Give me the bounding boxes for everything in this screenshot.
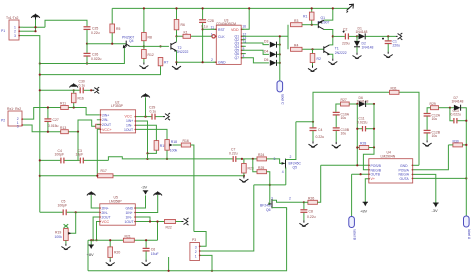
resistor R16 vert: [71, 90, 83, 107]
svg-text:4: 4: [243, 54, 245, 58]
wire vertA: [356, 104, 358, 165]
resistor R11: [60, 102, 68, 110]
svg-text:2: 2: [290, 155, 292, 159]
svg-text:-3V: -3V: [432, 208, 439, 213]
ground under C10B: [332, 142, 341, 148]
op-amp U2 LF353P: [100, 100, 135, 133]
resistor R30: [448, 139, 466, 147]
capacitor C8 0.22u: [300, 202, 315, 220]
svg-text:0.22u: 0.22u: [316, 135, 325, 139]
svg-text:Q5: Q5: [293, 166, 298, 170]
wire C4/C3 row: [40, 159, 61, 161]
ground under R20: [106, 260, 115, 266]
svg-text:1OUT: 1OUT: [124, 128, 133, 132]
svg-text:2OUT: 2OUT: [102, 215, 111, 219]
wire feedback riser: [157, 222, 159, 241]
ground under C12B: [423, 140, 432, 146]
wire rail drop left: [87, 240, 89, 271]
wire P1 pin1 row: [23, 26, 45, 28]
svg-text:220u: 220u: [342, 42, 350, 46]
svg-text:R21: R21: [125, 234, 131, 238]
svg-text:R8: R8: [148, 36, 152, 40]
resistor R27: [336, 98, 359, 112]
svg-text:C27: C27: [53, 118, 59, 122]
svg-text:GND: GND: [126, 206, 134, 210]
wire Q6 stub: [241, 53, 246, 55]
node Q4 collector: [143, 45, 145, 47]
wire P2 upper pin: [22, 108, 100, 120]
svg-text:Tx1·Tx2: Tx1·Tx2: [6, 16, 19, 20]
wire OUTB: [352, 173, 369, 175]
wire stub vert: [168, 257, 170, 271]
svg-text:10u: 10u: [432, 117, 438, 121]
svg-text:2N2222: 2N2222: [177, 50, 189, 54]
node C1 top: [387, 35, 389, 37]
svg-text:K1: K1: [184, 30, 188, 34]
svg-text:100pF: 100pF: [58, 204, 68, 208]
capacitor C29: [149, 105, 163, 119]
svg-text:R16: R16: [78, 97, 84, 101]
svg-text:LF353P: LF353P: [111, 104, 124, 108]
wire riser to top row: [313, 92, 419, 165]
svg-text:0.1u: 0.1u: [150, 109, 157, 113]
resistor R29: [427, 102, 454, 113]
svg-text:R4: R4: [294, 44, 298, 48]
net flag label A: [464, 216, 472, 240]
svg-text:0.1u: 0.1u: [201, 24, 208, 28]
resistor R24: [257, 153, 285, 163]
resistor R25: [253, 159, 270, 204]
svg-text:C26: C26: [92, 53, 98, 57]
wire gnd row to U3: [177, 61, 217, 63]
svg-text:P1: P1: [1, 29, 5, 33]
resistor R7: [158, 58, 168, 66]
svg-text:Q7: Q7: [235, 56, 240, 60]
diode D2 1N4148: [354, 36, 373, 52]
node junction pin2: [34, 30, 36, 32]
node C28 gnd row: [202, 61, 204, 63]
ground under C8: [299, 220, 308, 226]
capacitor C12A: [424, 113, 441, 129]
svg-text:0.22u: 0.22u: [229, 152, 238, 156]
svg-text:3: 3: [195, 245, 197, 249]
svg-text:2IN-: 2IN-: [102, 211, 108, 215]
capacitor C7 0.22u: [229, 147, 257, 162]
wire VCC drop: [97, 222, 100, 241]
svg-text:Q4: Q4: [129, 39, 134, 43]
node base row left: [86, 43, 88, 45]
wire Q4 stub: [241, 45, 246, 47]
wire R3/R4 riser: [287, 25, 289, 50]
wire C26 bottom: [86, 57, 88, 64]
resistor R15: [148, 141, 167, 154]
svg-text:0.1u: 0.1u: [79, 83, 86, 87]
op-amp U5 LM358P: [100, 195, 136, 225]
resistor R12: [142, 46, 154, 62]
U4 pin pads: [368, 165, 413, 180]
svg-text:0.022u: 0.022u: [451, 113, 461, 117]
wire riser to C25: [45, 20, 87, 27]
node backbone row74: [39, 74, 41, 76]
wire signal row to C7: [148, 158, 233, 160]
wire 1IN- drop: [136, 125, 157, 140]
node T2 collector: [175, 35, 177, 37]
svg-text:2: 2: [211, 58, 213, 62]
svg-text:GND: GND: [218, 61, 226, 65]
wire row y74.6: [40, 66, 161, 75]
wire R4 row: [302, 48, 324, 50]
svg-text:0.22u: 0.22u: [307, 215, 316, 219]
resistor R1: [303, 8, 314, 24]
svg-text:R17: R17: [101, 169, 107, 173]
capacitor C4b 0.22u: [310, 122, 325, 142]
svg-text:GND: GND: [400, 164, 408, 168]
svg-text:R11: R11: [60, 102, 66, 106]
U3 pin stubs: [213, 29, 244, 62]
wire VDD riser: [241, 8, 249, 29]
ground under C4b: [309, 141, 318, 147]
wire Q7 to D5: [241, 58, 269, 63]
svg-text:R1: R1: [303, 14, 307, 18]
wire OUTA: [413, 177, 467, 179]
svg-text:R13: R13: [60, 126, 66, 130]
svg-text:R16: R16: [183, 139, 189, 143]
svg-text:100pF: 100pF: [55, 153, 65, 157]
diode D6 1N4148: [357, 96, 375, 107]
svg-text:-3V: -3V: [141, 185, 148, 190]
output port arrow right of C29: [163, 113, 170, 120]
resistor R31: [390, 86, 400, 94]
power +V above C29: [141, 93, 150, 117]
node C2 branch: [332, 35, 334, 37]
wire C30 row: [40, 89, 80, 91]
svg-text:Q6: Q6: [266, 208, 271, 212]
op-amp U3 CD4040BCM: [211, 18, 247, 64]
node RST branch: [202, 28, 204, 30]
node D2 branch: [356, 35, 358, 37]
JFET Q5 BF245C: [274, 122, 302, 185]
capacitor C6 15uF: [143, 240, 159, 259]
wire P3 pin1 loop: [194, 232, 206, 247]
wire U2 VCC right: [136, 116, 152, 118]
wire Q1 output row: [241, 35, 288, 37]
wire Q2 stub: [241, 39, 246, 41]
node R2 top: [311, 48, 313, 50]
resistor R21: [123, 234, 134, 242]
svg-text:R20: R20: [114, 250, 120, 254]
wire POS/B row: [321, 164, 369, 166]
svg-text:R2: R2: [317, 57, 321, 61]
svg-text:LM2904N: LM2904N: [381, 155, 396, 159]
wire 1IN+ drop: [136, 121, 148, 153]
svg-text:Rx1· Rx2: Rx1· Rx2: [7, 107, 21, 111]
node VDD rail: [248, 7, 250, 9]
capacitor C26: [84, 53, 102, 62]
ground under C6: [142, 260, 151, 266]
wire jog up to signal row: [108, 157, 147, 161]
capacitor C30: [79, 79, 93, 93]
node junction pin1: [34, 26, 36, 28]
supply -3V: [432, 203, 439, 213]
svg-text:R12: R12: [148, 53, 154, 57]
capacitor C13 0.022u: [451, 109, 467, 124]
node T2 emitter: [175, 61, 177, 63]
resistor R22: [165, 220, 182, 230]
diode D3: [264, 40, 280, 48]
svg-text:P3: P3: [192, 238, 196, 242]
connector P2: [1, 107, 22, 129]
wire 1OUT drop: [136, 129, 167, 139]
node R6 top rail: [175, 7, 177, 9]
svg-text:10u: 10u: [341, 116, 347, 120]
wire backbone to C5: [40, 211, 63, 213]
svg-text:C25: C25: [92, 26, 98, 30]
wire P3 pin3 drop: [200, 255, 213, 270]
svg-text:2N2222: 2N2222: [335, 51, 347, 55]
svg-text:CD4040BCM: CD4040BCM: [216, 22, 236, 26]
svg-text:RST: RST: [218, 28, 225, 32]
wire drain node row: [296, 121, 313, 123]
svg-text:100k: 100k: [170, 148, 178, 152]
svg-text:10u: 10u: [341, 132, 347, 136]
wire diode cathode bus: [279, 36, 281, 81]
ground arrow above R16: [69, 83, 78, 87]
capacitor C27: [44, 108, 58, 132]
svg-text:R6: R6: [181, 23, 185, 27]
power +V above U5: [87, 191, 100, 208]
CLK bubble: [212, 35, 215, 38]
resistor R28: [357, 142, 374, 150]
svg-text:1N4148: 1N4148: [362, 45, 374, 49]
svg-text:LM358P: LM358P: [109, 199, 122, 203]
svg-text:label C: label C: [281, 94, 285, 105]
wire 1OUT row: [135, 221, 164, 223]
power arrow above 1IN+: [135, 191, 162, 213]
wire to C2: [333, 35, 345, 37]
svg-text:3: 3: [17, 125, 19, 129]
svg-text:CLK: CLK: [218, 35, 225, 39]
svg-text:220u: 220u: [393, 44, 401, 48]
wire C25 to base row: [86, 30, 88, 44]
svg-text:POS/B: POS/B: [371, 164, 382, 168]
U5 pin pads: [99, 207, 136, 222]
ground under D2: [353, 53, 362, 59]
wire R17 row: [40, 175, 244, 177]
resistor R2: [310, 49, 321, 65]
resistor R23: [242, 159, 254, 176]
svg-text:2OUT: 2OUT: [102, 123, 111, 127]
ground under T2: [172, 63, 181, 70]
wire vertB: [373, 104, 375, 148]
resistor R4: [291, 44, 303, 52]
node R7 branch: [159, 45, 161, 47]
svg-text:3: 3: [274, 157, 276, 161]
svg-text:2: 2: [14, 30, 16, 34]
capacitor C25: [84, 26, 100, 35]
U2 pin pads: [97, 114, 136, 130]
svg-text:1IN+: 1IN+: [126, 211, 133, 215]
wire Q5 source row: [254, 184, 286, 186]
ground under T1: [328, 59, 337, 65]
svg-text:OUTA: OUTA: [400, 177, 410, 181]
svg-text:VDD: VDD: [231, 28, 239, 32]
resistor R26: [304, 165, 321, 204]
svg-text:D3: D3: [264, 40, 268, 44]
wire RST: [203, 28, 217, 30]
wire bottom rail: [88, 208, 287, 270]
svg-text:1IN-: 1IN-: [126, 123, 132, 127]
svg-text:1: 1: [211, 32, 213, 36]
capacitor C12B: [424, 130, 441, 140]
node C26 bottom: [86, 62, 88, 64]
svg-text:3: 3: [14, 34, 16, 38]
transistor Q1 2N2907: [318, 8, 333, 36]
output port arrow after R22: [182, 218, 189, 225]
svg-text:15uF: 15uF: [151, 252, 159, 256]
node R8 top rail: [143, 7, 145, 9]
svg-text:R7: R7: [164, 61, 168, 65]
node R1 bottom: [311, 24, 313, 26]
svg-text:0.22u: 0.22u: [91, 31, 100, 35]
ground under R12: [139, 63, 148, 69]
ground under R19: [61, 244, 70, 250]
node R5 bottom: [111, 43, 113, 45]
svg-text:VCC: VCC: [102, 220, 110, 224]
svg-text:D4: D4: [264, 49, 268, 53]
svg-text:1IN-: 1IN-: [126, 215, 132, 219]
connector P1: [1, 16, 23, 40]
capacitor C4 100pF: [55, 149, 80, 164]
svg-text:10u: 10u: [432, 134, 438, 138]
resistor R6: [174, 8, 185, 36]
svg-text:1: 1: [195, 255, 197, 259]
resistor R5: [110, 8, 121, 43]
supply -3V above U5: [135, 185, 148, 208]
svg-text:2: 2: [289, 196, 291, 200]
wire Q5 to D4: [241, 50, 269, 54]
transistor T1 2N2222: [324, 36, 347, 58]
resistor R13: [60, 126, 68, 134]
svg-text:label A: label A: [467, 229, 471, 240]
op-amp U4 LM2904N: [369, 151, 413, 183]
capacitor C28: [199, 8, 214, 62]
wire C25-C26 link: [86, 44, 88, 53]
wire 1IN- link: [135, 217, 150, 222]
net flag label C: [277, 81, 285, 105]
svg-text:2: 2: [195, 250, 197, 254]
svg-text:+8V: +8V: [360, 209, 368, 214]
svg-text:4: 4: [282, 170, 284, 174]
wire P2 lower pin: [22, 125, 78, 132]
svg-text:0.015u: 0.015u: [48, 124, 58, 128]
wire vert to C3 row: [77, 132, 79, 161]
connector P3: [190, 238, 200, 260]
wire V+ drop: [365, 179, 369, 202]
svg-text:R24: R24: [258, 153, 264, 157]
wire link R15node: [147, 153, 149, 159]
resistor R16b: [181, 139, 194, 231]
power +V arrow top-left: [31, 13, 40, 31]
svg-text:C8: C8: [309, 209, 313, 213]
wire 2IN- riser: [78, 120, 96, 132]
wire Q3 to D3: [241, 43, 269, 45]
resistor R20: [108, 240, 120, 259]
diode D5: [264, 58, 280, 66]
wire R19 wiper link: [69, 212, 76, 233]
supply +8V under U4: [360, 202, 368, 213]
transistor Q4 PN2907: [122, 36, 144, 49]
output port arrow: [396, 33, 402, 40]
node R16a bottom: [73, 106, 75, 108]
svg-text:C6: C6: [151, 248, 155, 252]
wire P3 pin2 riser: [200, 185, 254, 251]
svg-text:10pF: 10pF: [76, 153, 84, 157]
svg-text:C28: C28: [208, 19, 214, 23]
capacitor C5 100pF: [58, 200, 100, 216]
svg-text:R31: R31: [391, 86, 397, 90]
wire row y63: [40, 48, 125, 64]
wire 2OUT drop: [93, 217, 100, 240]
power flag top right: [347, 4, 354, 12]
svg-text:+8V: +8V: [87, 252, 95, 257]
svg-text:R18: R18: [171, 140, 177, 144]
svg-text:R28: R28: [360, 142, 366, 146]
capacitor C11 0.022u: [357, 117, 374, 132]
svg-text:VCC+: VCC+: [102, 128, 112, 132]
svg-text:0.022u: 0.022u: [91, 57, 101, 61]
ground under R23: [239, 176, 248, 182]
trimmer R19 100k: [55, 224, 72, 243]
ground under C1: [384, 52, 393, 58]
resistor R12 feedback: [96, 124, 102, 128]
wire VCC+ drop: [97, 129, 100, 176]
svg-text:1N4148: 1N4148: [452, 99, 464, 103]
svg-text:2IN-: 2IN-: [102, 118, 108, 122]
JFET Q6 BF245C: [260, 196, 304, 211]
wire top rail: [112, 7, 349, 9]
resistor R8: [142, 8, 152, 46]
ground under R2: [308, 66, 317, 72]
wire OUTB drop to flag: [351, 174, 353, 216]
capacitor C10B: [333, 128, 350, 142]
svg-text:100k: 100k: [55, 235, 63, 239]
wire P1 pin3 to backbone: [23, 36, 40, 213]
diode D4: [264, 49, 280, 57]
svg-text:2IN+: 2IN+: [102, 113, 109, 117]
svg-text:R5: R5: [116, 27, 120, 31]
capacitor C1 220u: [382, 36, 400, 51]
resistor R3: [291, 19, 318, 27]
svg-text:V+: V+: [371, 177, 376, 181]
svg-text:16: 16: [242, 25, 246, 29]
svg-text:0.022u: 0.022u: [357, 120, 367, 124]
svg-text:R3: R3: [294, 19, 298, 23]
wire GND pin to riser: [413, 164, 419, 166]
wire Q4 base row: [87, 43, 126, 45]
diode D1 1N4148: [356, 27, 397, 40]
wire +8V row: [88, 239, 158, 241]
capacitor C3 10pF: [76, 149, 109, 164]
svg-text:Q1: Q1: [321, 16, 326, 20]
supply +8V: [87, 240, 95, 257]
wire POS/A: [413, 145, 449, 170]
connector pads: [18, 26, 200, 256]
wire T2 base row: [144, 45, 169, 47]
small gnd arrow right of C30: [93, 87, 100, 93]
potentiometer R18 100k: [165, 140, 181, 159]
transistor T2 2N2222: [171, 36, 189, 62]
svg-text:R27: R27: [341, 98, 347, 102]
